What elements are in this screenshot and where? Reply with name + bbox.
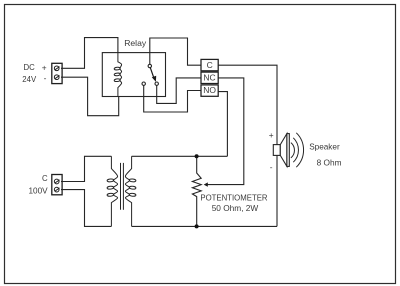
label 8 Ohm [317, 158, 342, 168]
transformer primary winding [107, 156, 118, 226]
label - (speaker) [270, 162, 273, 172]
wire secondary top rail [132, 155, 228, 157]
relay coil [114, 53, 122, 97]
label + (speaker) [269, 130, 274, 140]
wire DC- to relay coil bottom [61, 77, 119, 116]
terminal block J1 DC 24V [52, 63, 62, 83]
transformer secondary winding [125, 156, 136, 226]
label 24V [22, 75, 37, 84]
svg-text:100V: 100V [29, 186, 49, 195]
junction node: secondary top / potentiometer top / NO [195, 154, 199, 158]
speaker sound arcs [291, 133, 304, 167]
relay box K1 [102, 53, 165, 97]
relay switch NC-side contact [142, 82, 145, 85]
wire NO box down to secondary top rail [218, 92, 227, 157]
potentiometer wiper arrowhead [204, 182, 208, 186]
terminal box NO [201, 85, 218, 96]
terminal box NC [201, 72, 218, 83]
wire 100V top to transformer primary top [61, 156, 111, 181]
svg-text:POTENTIOMETER: POTENTIOMETER [200, 193, 268, 202]
label POTENTIOMETER [200, 193, 268, 202]
wire C box to speaker line [218, 65, 277, 226]
svg-text:NO: NO [203, 85, 216, 95]
label C (100V terminal) [42, 174, 48, 183]
transformer core [121, 163, 124, 210]
svg-text:Relay: Relay [124, 38, 147, 48]
label 100V [29, 186, 49, 195]
svg-text:-: - [270, 162, 273, 172]
relay switch common contact [148, 64, 151, 67]
svg-text:8 Ohm: 8 Ohm [317, 158, 342, 168]
terminal block J2 C 100V [52, 175, 62, 195]
svg-text:24V: 24V [22, 75, 37, 84]
svg-text:50 Ohm, 2W: 50 Ohm, 2W [212, 203, 259, 213]
svg-text:DC: DC [24, 63, 36, 72]
wire NC-side contact to NO terminal box [144, 85, 201, 112]
svg-text:C: C [207, 60, 213, 70]
relay switch NO-side contact [155, 82, 158, 85]
wire secondary bottom rail [132, 225, 277, 227]
terminal box C [201, 59, 218, 70]
label - (DC negative) [44, 73, 47, 83]
relay switch actuator arrow [150, 68, 156, 82]
svg-text:+: + [269, 130, 274, 140]
svg-text:-: - [44, 73, 47, 83]
wire 100V bottom to transformer primary bottom [61, 190, 111, 227]
svg-text:Speaker: Speaker [309, 143, 340, 152]
speaker LS1 driver [273, 134, 289, 167]
wire NO-side contact to NC terminal box [157, 78, 201, 104]
label Speaker [309, 143, 340, 152]
svg-text:C: C [42, 174, 48, 183]
svg-text:NC: NC [203, 72, 215, 82]
label + (DC positive) [42, 62, 47, 72]
wire relay common to C box [150, 38, 201, 65]
label DC [24, 63, 36, 72]
wire NC box to potentiometer wiper [207, 78, 244, 185]
junction node: secondary bottom / potentiometer bottom [195, 224, 199, 228]
potentiometer R1 body [192, 156, 201, 226]
wire DC+ to relay coil top [61, 38, 118, 69]
svg-text:+: + [42, 62, 47, 72]
label 50 Ohm, 2W [212, 203, 259, 213]
label Relay [124, 38, 147, 48]
